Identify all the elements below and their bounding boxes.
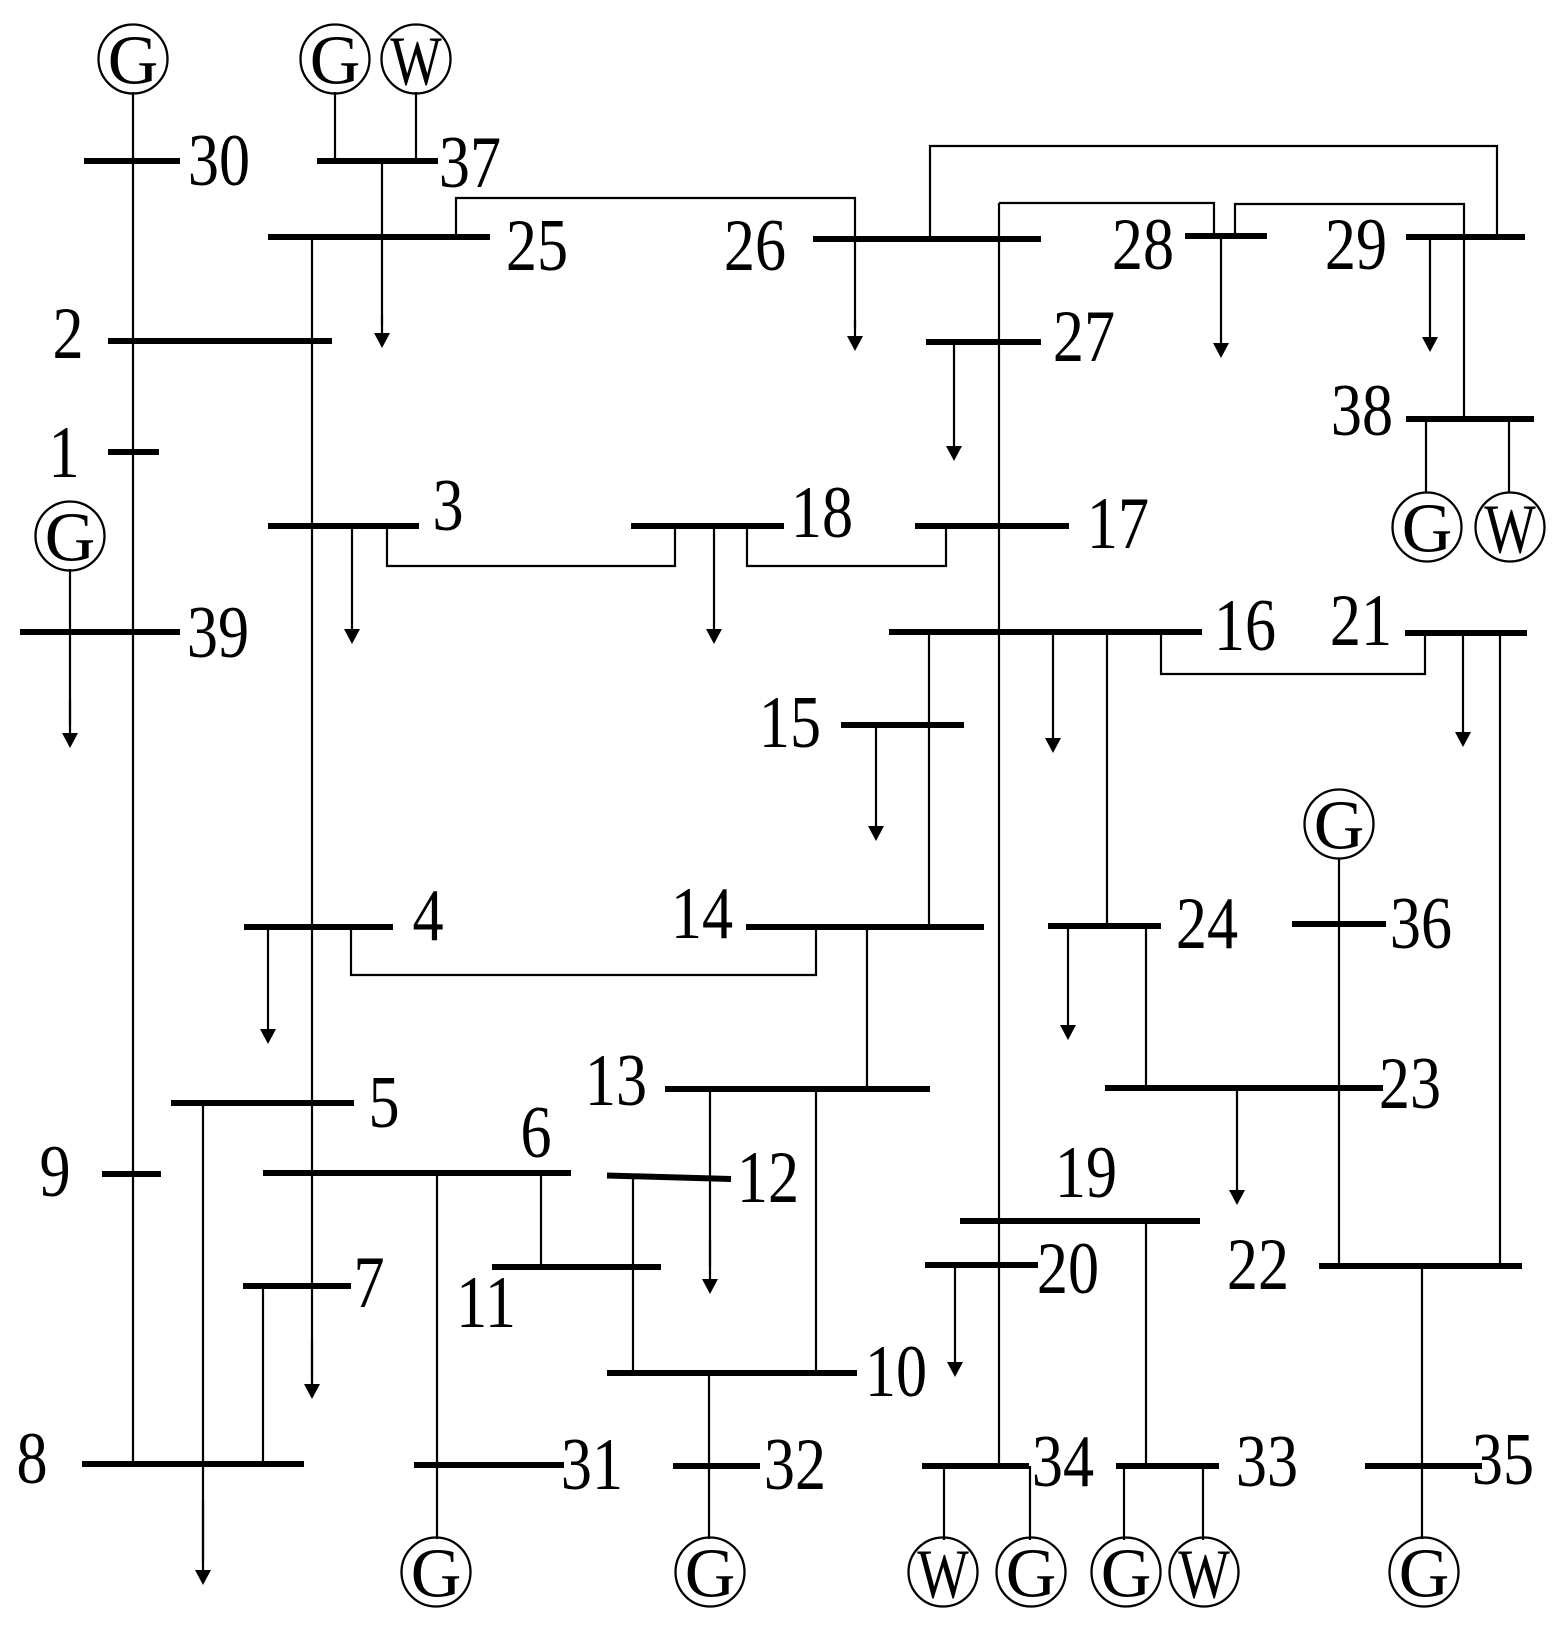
bus 8 [82,1461,304,1467]
bus 17 [915,523,1069,529]
svg-text:31: 31 [561,1423,623,1505]
wire G36-36-23-22 [1338,858,1340,1266]
svg-text:G: G [1006,1536,1057,1613]
label 16 [1214,584,1276,666]
generator G at bus33 [1092,1536,1161,1613]
bus 6 [263,1170,571,1176]
load arrow bus16 [1045,632,1061,753]
bus 29 [1406,234,1525,240]
generator W at bus37 [382,22,451,100]
svg-text:33: 33 [1236,1420,1298,1502]
bus 11 [492,1264,661,1270]
bus 36 [1292,921,1386,927]
wire 33 G stub [1123,1466,1125,1540]
load arrow bus3 [344,526,360,644]
label 22 [1227,1223,1289,1305]
bus 30 [84,158,180,164]
svg-text:38: 38 [1331,369,1393,451]
svg-text:39: 39 [187,591,249,673]
svg-text:22: 22 [1227,1223,1289,1305]
bus 35 [1365,1463,1482,1469]
generator G at bus39 [36,500,105,577]
svg-text:W: W [917,1535,969,1613]
svg-text:5: 5 [368,1061,399,1143]
bus 33 [1116,1463,1219,1469]
svg-text:25: 25 [506,204,568,286]
label 30 [188,119,250,201]
load arrow bus26 [847,320,863,351]
bus 14 [746,924,984,930]
wire 6-31-G [436,1173,438,1539]
svg-text:29: 29 [1325,203,1387,285]
bus 3 [268,523,419,529]
load arrow bus8 [195,1500,211,1585]
svg-text:12: 12 [737,1136,799,1218]
svg-text:18: 18 [791,471,853,553]
svg-text:1: 1 [48,411,79,493]
svg-text:G: G [45,500,96,577]
wire 16-24 [1106,632,1108,926]
label 20 [1037,1227,1099,1309]
wire 19-33 [1145,1221,1147,1466]
wire 26/28 to 17-16-19-20-34 chain [998,203,1000,1466]
wire 33 W stub [1202,1466,1204,1540]
svg-text:17: 17 [1087,482,1149,564]
svg-text:16: 16 [1214,584,1276,666]
wire 13-12 and 12 load [709,1089,711,1267]
bus 15 [841,722,964,728]
bus 19 [960,1218,1200,1224]
svg-text:15: 15 [759,681,821,763]
svg-text:W: W [1178,1535,1230,1613]
wire 28-29-38 link [1235,204,1464,419]
label 28 [1112,203,1174,285]
label 19 [1055,1131,1117,1213]
bus 24 [1048,923,1161,929]
bus 18 [631,523,784,529]
generator W at bus33 [1170,1535,1239,1613]
wire 3-18 link [387,526,675,566]
bus 20 [925,1262,1038,1268]
generator G at bus36 [1305,788,1374,865]
svg-text:24: 24 [1176,882,1238,964]
bus 26 [813,236,1041,242]
generator G at bus38 [1393,491,1462,568]
label 4 [412,874,443,956]
bus 37 [317,158,438,164]
wire 26-29 link [930,146,1497,239]
generator G at bus32 [676,1536,745,1613]
load arrow bus25 [374,315,390,348]
wire 24-23 [1145,926,1147,1088]
bus 16 [889,629,1202,635]
svg-text:9: 9 [39,1130,70,1212]
bus 7 [243,1283,351,1289]
svg-text:G: G [1101,1536,1152,1613]
bus 25 [268,234,490,240]
bus 21 [1405,630,1527,636]
bus 27 [926,339,1041,345]
label 32 [764,1423,826,1505]
svg-text:4: 4 [412,874,443,956]
bus 23 [1105,1085,1383,1091]
load arrow bus28 [1213,236,1229,358]
label 29 [1325,203,1387,285]
load arrow bus12 [702,1240,718,1294]
bus 34 [922,1463,1029,1469]
wire 22-35-G [1421,1266,1423,1539]
label 39 [187,591,249,673]
svg-text:G: G [685,1536,736,1613]
svg-text:6: 6 [520,1091,551,1173]
bus 4 [244,924,393,930]
svg-text:G: G [1314,788,1365,865]
label 26 [724,204,786,286]
svg-text:G: G [411,1536,462,1613]
svg-text:W: W [390,22,442,100]
svg-text:28: 28 [1112,203,1174,285]
label 21 [1330,579,1392,661]
generator G at bus35 [1390,1536,1459,1613]
wire 7-8 [262,1286,264,1464]
bus 28 [1185,233,1267,239]
load arrow bus39 [62,700,78,748]
load arrow bus23 [1229,1088,1245,1205]
svg-text:8: 8 [16,1417,47,1499]
wire 16-15-14 [928,632,930,927]
generator W at bus34 [909,1535,978,1613]
load arrow bus18 [706,526,722,644]
wire 26-28 link [999,203,1214,236]
label 12 [737,1136,799,1218]
bus 2 [108,338,332,344]
generator W at bus38 [1476,490,1545,568]
label 36 [1390,882,1452,964]
wire W37 stub [415,92,417,161]
load arrow bus24 [1060,926,1076,1040]
label 31 [561,1423,623,1505]
label 38 [1331,369,1393,451]
label 23 [1379,1042,1441,1124]
svg-text:37: 37 [439,121,501,203]
bus 31 [414,1462,564,1468]
label 35 [1472,1418,1534,1500]
wire 16-21 link [1161,632,1425,674]
label 8 [16,1417,47,1499]
bus 38 [1406,416,1534,422]
load arrow bus27 [946,342,962,461]
label 18 [791,471,853,553]
bus 12 [607,1176,731,1180]
label 25 [506,204,568,286]
svg-text:34: 34 [1032,1420,1094,1502]
svg-text:3: 3 [432,464,463,546]
wire 21-22 [1499,633,1501,1266]
wire 5-8 and 8 load [202,1103,204,1562]
label 7 [353,1241,384,1323]
load arrow bus15 [868,725,884,841]
bus 32 [673,1463,760,1469]
svg-text:35: 35 [1472,1418,1534,1500]
load arrow bus29 [1422,237,1438,352]
label 27 [1053,295,1115,377]
bus 9 [102,1171,161,1177]
svg-text:G: G [1399,1536,1450,1613]
svg-text:G: G [108,23,159,100]
bus 13 [665,1086,930,1092]
load arrow bus7 [304,1340,320,1399]
label 37 [439,121,501,203]
svg-text:32: 32 [764,1423,826,1505]
svg-text:G: G [310,23,361,100]
wire 37-25 and 25 load [381,161,383,325]
label 17 [1087,482,1149,564]
wire G37 stub [334,92,336,161]
wire 4-14 link [351,927,816,975]
svg-text:11: 11 [456,1261,516,1343]
svg-text:14: 14 [671,872,733,954]
svg-text:19: 19 [1055,1131,1117,1213]
svg-text:20: 20 [1037,1227,1099,1309]
wire 25-2-3-4-5-6-7 chain [311,237,313,1381]
label 34 [1032,1420,1094,1502]
svg-text:30: 30 [188,119,250,201]
label 9 [39,1130,70,1212]
wire 14-13 [866,927,868,1089]
bus 22 [1319,1263,1522,1269]
label 33 [1236,1420,1298,1502]
svg-text:W: W [1484,490,1536,568]
wire 34 W stub [943,1466,945,1540]
label 1 [48,411,79,493]
svg-text:13: 13 [585,1039,647,1121]
bus 5 [171,1100,354,1106]
svg-text:10: 10 [865,1330,927,1412]
svg-text:26: 26 [724,204,786,286]
label 3 [432,464,463,546]
bus 10 [607,1370,857,1376]
wire 38 W stub [1508,419,1510,493]
bus 39 [20,629,180,635]
label 13 [585,1039,647,1121]
wire 10-32-G [708,1373,710,1539]
label 6 [520,1091,551,1173]
wire 12-11-10 [632,1177,634,1373]
label 5 [368,1061,399,1143]
svg-text:G: G [1402,491,1453,568]
load arrow bus21 [1455,633,1471,747]
generator G at bus34 [997,1536,1066,1613]
label 11 [456,1261,516,1343]
label 15 [759,681,821,763]
generator G at bus30 [99,23,168,100]
svg-text:21: 21 [1330,579,1392,661]
wire G39 to 39 [69,569,71,725]
svg-text:36: 36 [1390,882,1452,964]
wire 13-10 [815,1089,817,1373]
load arrow bus4 [260,927,276,1044]
wire 18-17 link [747,526,946,566]
wire 38 G stub [1425,419,1427,493]
svg-text:23: 23 [1379,1042,1441,1124]
wire 34 G stub [1029,1466,1031,1540]
wire 30-2-1-39-9-8 chain [132,92,134,1464]
bus 1 [108,449,159,455]
label 24 [1176,882,1238,964]
svg-text:7: 7 [353,1241,384,1323]
load arrow bus20 [947,1265,963,1377]
svg-text:27: 27 [1053,295,1115,377]
wire 25-26 link [456,198,855,328]
label 2 [52,292,83,374]
label 14 [671,872,733,954]
svg-text:2: 2 [52,292,83,374]
label 10 [865,1330,927,1412]
generator G at bus37 [301,23,370,100]
generator G at bus31 [402,1536,471,1613]
wire 6-11 [540,1173,542,1267]
